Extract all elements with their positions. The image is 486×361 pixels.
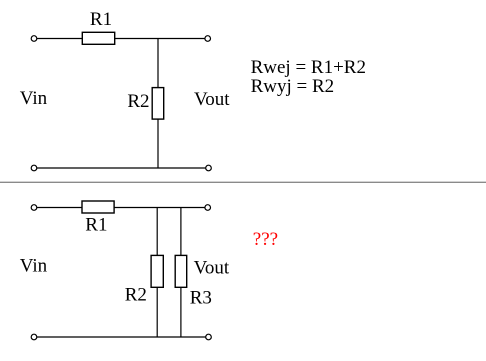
- resistor R2 (circuit 1): [152, 88, 164, 120]
- svg-text:Vin: Vin: [20, 88, 48, 109]
- terminal Vin- (circuit 2): [31, 334, 37, 340]
- wire top horizontal (circuit 1): [37, 38, 206, 40]
- svg-text:Rwyj = R2: Rwyj = R2: [251, 76, 335, 97]
- wire branch R2 vertical (circuit 2): [156, 208, 158, 338]
- svg-text:R2: R2: [127, 91, 149, 112]
- wire junction vertical to R2 (circuit 1): [157, 39, 159, 169]
- wire top horizontal (circuit 2): [37, 207, 206, 209]
- svg-text:Rwej = R1+R2: Rwej = R1+R2: [251, 57, 366, 78]
- resistor R1 (circuit 1): [82, 32, 114, 44]
- terminal Vout+ (circuit 1): [205, 36, 211, 42]
- terminal Vin+ (circuit 2): [31, 205, 37, 211]
- svg-text:R1: R1: [90, 9, 112, 30]
- svg-text:???: ???: [253, 229, 278, 250]
- svg-text:Vout: Vout: [194, 257, 230, 278]
- svg-text:Vin: Vin: [20, 256, 48, 277]
- terminal Vin- (circuit 1): [31, 165, 37, 171]
- terminal Vout- (circuit 2): [206, 334, 212, 340]
- divider line: [0, 181, 486, 183]
- svg-text:R2: R2: [125, 285, 147, 306]
- resistor R3 (circuit 2): [175, 255, 187, 287]
- terminal Vout+ (circuit 2): [205, 205, 211, 211]
- wire bottom horizontal (circuit 1): [37, 167, 207, 169]
- wire bottom horizontal (circuit 2): [37, 336, 207, 338]
- wire branch R3 vertical (circuit 2): [180, 208, 182, 338]
- resistor R1 (circuit 2): [82, 201, 114, 213]
- svg-text:R3: R3: [190, 287, 212, 308]
- svg-text:Vout: Vout: [194, 89, 230, 110]
- resistor R2 (circuit 2): [151, 255, 163, 287]
- terminal Vout- (circuit 1): [206, 165, 212, 171]
- svg-text:R1: R1: [85, 214, 107, 235]
- terminal Vin+ (circuit 1): [31, 36, 37, 42]
